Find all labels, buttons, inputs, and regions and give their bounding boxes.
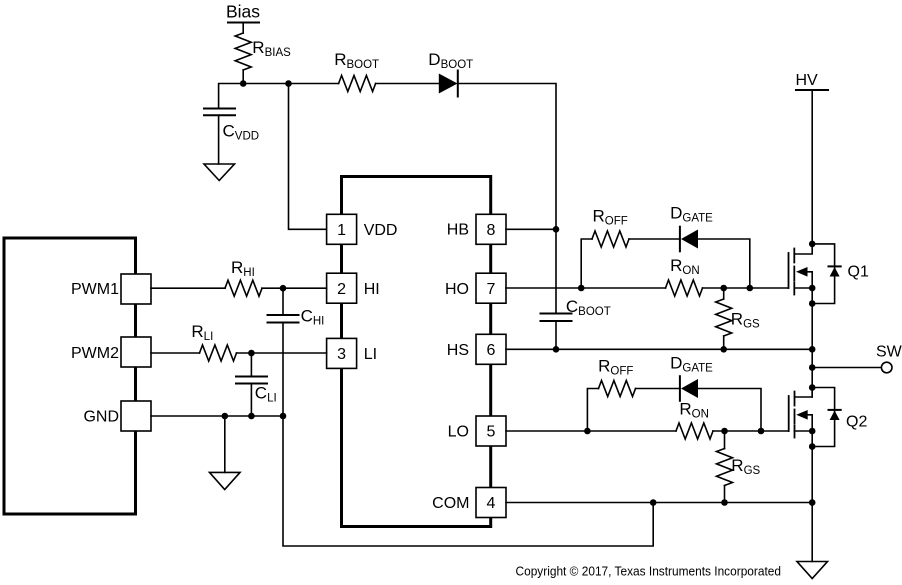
resistor R_BOOT <box>334 50 379 92</box>
wire to R_GS (Q1) <box>723 288 725 299</box>
pin 6 HS <box>447 334 506 364</box>
svg-text:DBOOT: DBOOT <box>428 50 473 71</box>
svg-text:DGATE: DGATE <box>670 354 713 375</box>
pin 1 VDD <box>327 214 398 244</box>
diode D_GATE (Q1) <box>670 204 713 252</box>
wire R_OFF to D_GATE (Q2) <box>636 388 680 390</box>
wire SW stub <box>812 367 881 369</box>
pin PWM2 <box>71 337 151 367</box>
wire C_VDD to ground <box>218 115 220 164</box>
wire R_ON to Q1 gate <box>703 287 789 289</box>
node COM return <box>650 499 657 506</box>
node Q1 drain / body diode <box>809 241 816 248</box>
node SW terminal <box>876 344 902 373</box>
node C_LI / ground rail <box>248 413 255 420</box>
svg-text:HO: HO <box>445 281 469 298</box>
capacitor C_VDD <box>204 109 259 143</box>
wire pin 7 HO <box>506 287 666 289</box>
gate driver IC U1 <box>342 177 491 527</box>
svg-text:HI: HI <box>364 281 380 298</box>
svg-text:Bias: Bias <box>226 2 260 22</box>
wire D_BOOT to HB rail <box>458 84 556 314</box>
wire R_GS to COM (Q2) <box>724 486 726 503</box>
svg-text:6: 6 <box>487 342 496 359</box>
svg-text:HB: HB <box>447 222 469 239</box>
svg-text:5: 5 <box>487 424 496 441</box>
svg-text:PWM1: PWM1 <box>71 281 119 298</box>
ground (logic) <box>210 472 241 489</box>
resistor R_OFF (Q1) <box>592 207 629 248</box>
wire pin 4 COM <box>506 502 812 504</box>
node Q2 source <box>809 428 816 435</box>
svg-text:4: 4 <box>487 495 496 512</box>
wire node to C_HI <box>282 288 284 315</box>
svg-text:HS: HS <box>447 342 469 359</box>
svg-text:GND: GND <box>83 409 119 426</box>
svg-text:3: 3 <box>337 346 346 363</box>
svg-text:HV: HV <box>796 72 819 89</box>
wire PWM2 to R_LI <box>151 352 200 354</box>
wire node to R_BOOT <box>243 83 338 85</box>
node Q1 body diode anode <box>809 300 816 307</box>
wire D_GATE down to gate (Q2) <box>698 389 761 432</box>
resistor R_GS (Q2) <box>717 449 761 486</box>
svg-text:RGS: RGS <box>731 456 760 477</box>
wire C_BOOT to HS <box>555 321 557 349</box>
svg-text:Copyright © 2017, Texas Instru: Copyright © 2017, Texas Instruments Inco… <box>516 564 782 579</box>
node SW tap <box>809 364 816 371</box>
node LI / C_LI <box>248 350 255 357</box>
wire C_HI to ground rail <box>282 323 284 417</box>
svg-text:ROFF: ROFF <box>593 207 628 228</box>
node HS / SW rail <box>809 346 816 353</box>
wire R_OFF branch up (Q1) <box>581 239 592 288</box>
wire R_OFF branch up (Q2) <box>587 389 598 432</box>
node LO / R_OFF branch (Q2) <box>584 428 591 435</box>
resistor R_GS (Q1) <box>716 299 760 336</box>
wire R_LI to pin 3 <box>237 352 327 354</box>
resistor R_BIAS <box>235 33 291 70</box>
svg-text:ROFF: ROFF <box>598 357 633 378</box>
node HI / C_HI <box>280 285 287 292</box>
node COM / R_GS <box>721 499 728 506</box>
svg-text:LI: LI <box>364 346 377 363</box>
resistor R_ON (Q2) <box>676 400 713 439</box>
wire ground rail to COM return <box>283 416 653 546</box>
svg-text:COM: COM <box>432 495 469 512</box>
pin 4 COM <box>432 488 506 518</box>
svg-text:Q2: Q2 <box>846 414 867 431</box>
node Q2 drain / body diode <box>809 384 816 391</box>
resistor R_HI <box>225 258 262 296</box>
resistor R_LI <box>191 322 236 361</box>
svg-text:SW: SW <box>876 344 902 361</box>
svg-text:1: 1 <box>337 222 346 239</box>
node D_GATE return (Q2) <box>758 428 765 435</box>
wire PWM1 to R_HI <box>151 287 225 289</box>
svg-text:8: 8 <box>487 222 496 239</box>
node HS / R_GS <box>720 346 727 353</box>
pin 2 HI <box>327 273 380 303</box>
svg-text:DGATE: DGATE <box>670 204 713 225</box>
svg-text:RHI: RHI <box>231 258 255 279</box>
node R_GS tap (Q1) <box>720 285 727 292</box>
wire R_OFF to D_GATE (Q1) <box>629 238 680 240</box>
svg-text:2: 2 <box>337 281 346 298</box>
pin 3 LI <box>327 338 377 368</box>
resistor R_ON (Q1) <box>666 256 703 296</box>
pin 5 LO <box>448 416 506 446</box>
wire GND rail <box>151 415 283 417</box>
node C_HI / ground rail <box>280 413 287 420</box>
svg-text:Q1: Q1 <box>848 264 869 281</box>
node VDD junction <box>240 80 247 87</box>
svg-text:LO: LO <box>448 424 469 441</box>
wire to R_GS (Q2) <box>724 431 726 449</box>
ground (power) <box>797 562 828 579</box>
transistor Q2 <box>789 388 868 438</box>
node COM / Q2 source <box>809 499 816 506</box>
wire pin 8 HB to boot rail <box>506 228 556 230</box>
node HS / C_BOOT <box>553 346 560 353</box>
diode D_GATE (Q2) <box>670 354 713 401</box>
pin 8 HB <box>447 214 506 244</box>
node HV <box>796 72 829 90</box>
svg-text:7: 7 <box>487 281 496 298</box>
pin 7 HO <box>445 273 506 303</box>
wire R_BIAS to node <box>242 70 244 84</box>
wire R_ON to Q2 gate <box>713 430 789 432</box>
wire HV to Q1 drain <box>811 90 813 244</box>
node D_GATE return (Q1) <box>747 285 754 292</box>
wire R_BOOT to D_BOOT <box>376 83 439 85</box>
node Q2 body diode anode <box>809 443 816 450</box>
capacitor C_HI <box>268 306 325 327</box>
wire R_HI to pin 2 <box>262 287 327 289</box>
wire pin 5 LO <box>506 430 676 432</box>
svg-text:PWM2: PWM2 <box>71 345 119 362</box>
wire D_GATE down to gate (Q1) <box>698 239 750 288</box>
svg-text:CLI: CLI <box>255 383 277 404</box>
body diode Q1 <box>812 244 841 304</box>
wire node to C_VDD <box>219 84 244 109</box>
wire R_GS to HS (Q1) <box>723 336 725 349</box>
diode D_BOOT <box>428 50 473 97</box>
svg-text:RGS: RGS <box>731 309 760 330</box>
node HB <box>553 226 560 233</box>
node R_GS tap (Q2) <box>721 428 728 435</box>
ground (C_VDD) <box>204 164 235 181</box>
svg-text:RBOOT: RBOOT <box>334 50 379 71</box>
node VDD branch <box>285 80 292 87</box>
svg-text:CBOOT: CBOOT <box>566 297 611 318</box>
controller block (PWM source) <box>4 238 136 514</box>
svg-text:RBIAS: RBIAS <box>252 38 291 59</box>
wire Bias to R_BIAS <box>242 23 244 34</box>
resistor R_OFF (Q2) <box>598 357 635 397</box>
pin GND <box>83 401 151 431</box>
wire Q2 source to ground <box>811 431 813 562</box>
svg-text:CHI: CHI <box>301 306 325 327</box>
svg-text:RLI: RLI <box>191 322 213 343</box>
wire pin 6 HS to switch node <box>506 348 812 350</box>
capacitor C_LI <box>236 377 277 405</box>
transistor Q1 <box>789 244 869 295</box>
node Q1 source <box>809 285 816 292</box>
node Bias <box>226 2 260 23</box>
wire ground rail to ground symbol <box>224 416 226 472</box>
wire C_LI to ground rail <box>250 384 252 417</box>
wire VDD branch to pin 1 <box>289 84 327 230</box>
svg-text:RON: RON <box>679 400 709 421</box>
wire Q1 source to Q2 drain (switch rail) <box>811 288 813 397</box>
wire node to C_LI <box>250 353 252 377</box>
node HO / R_OFF branch <box>578 285 585 292</box>
capacitor C_BOOT <box>541 297 611 321</box>
svg-text:RON: RON <box>670 256 700 277</box>
body diode Q2 <box>812 388 841 447</box>
pin PWM1 <box>71 274 151 304</box>
node ground symbol tap <box>222 413 229 420</box>
svg-text:CVDD: CVDD <box>223 122 260 143</box>
svg-text:VDD: VDD <box>364 222 398 239</box>
